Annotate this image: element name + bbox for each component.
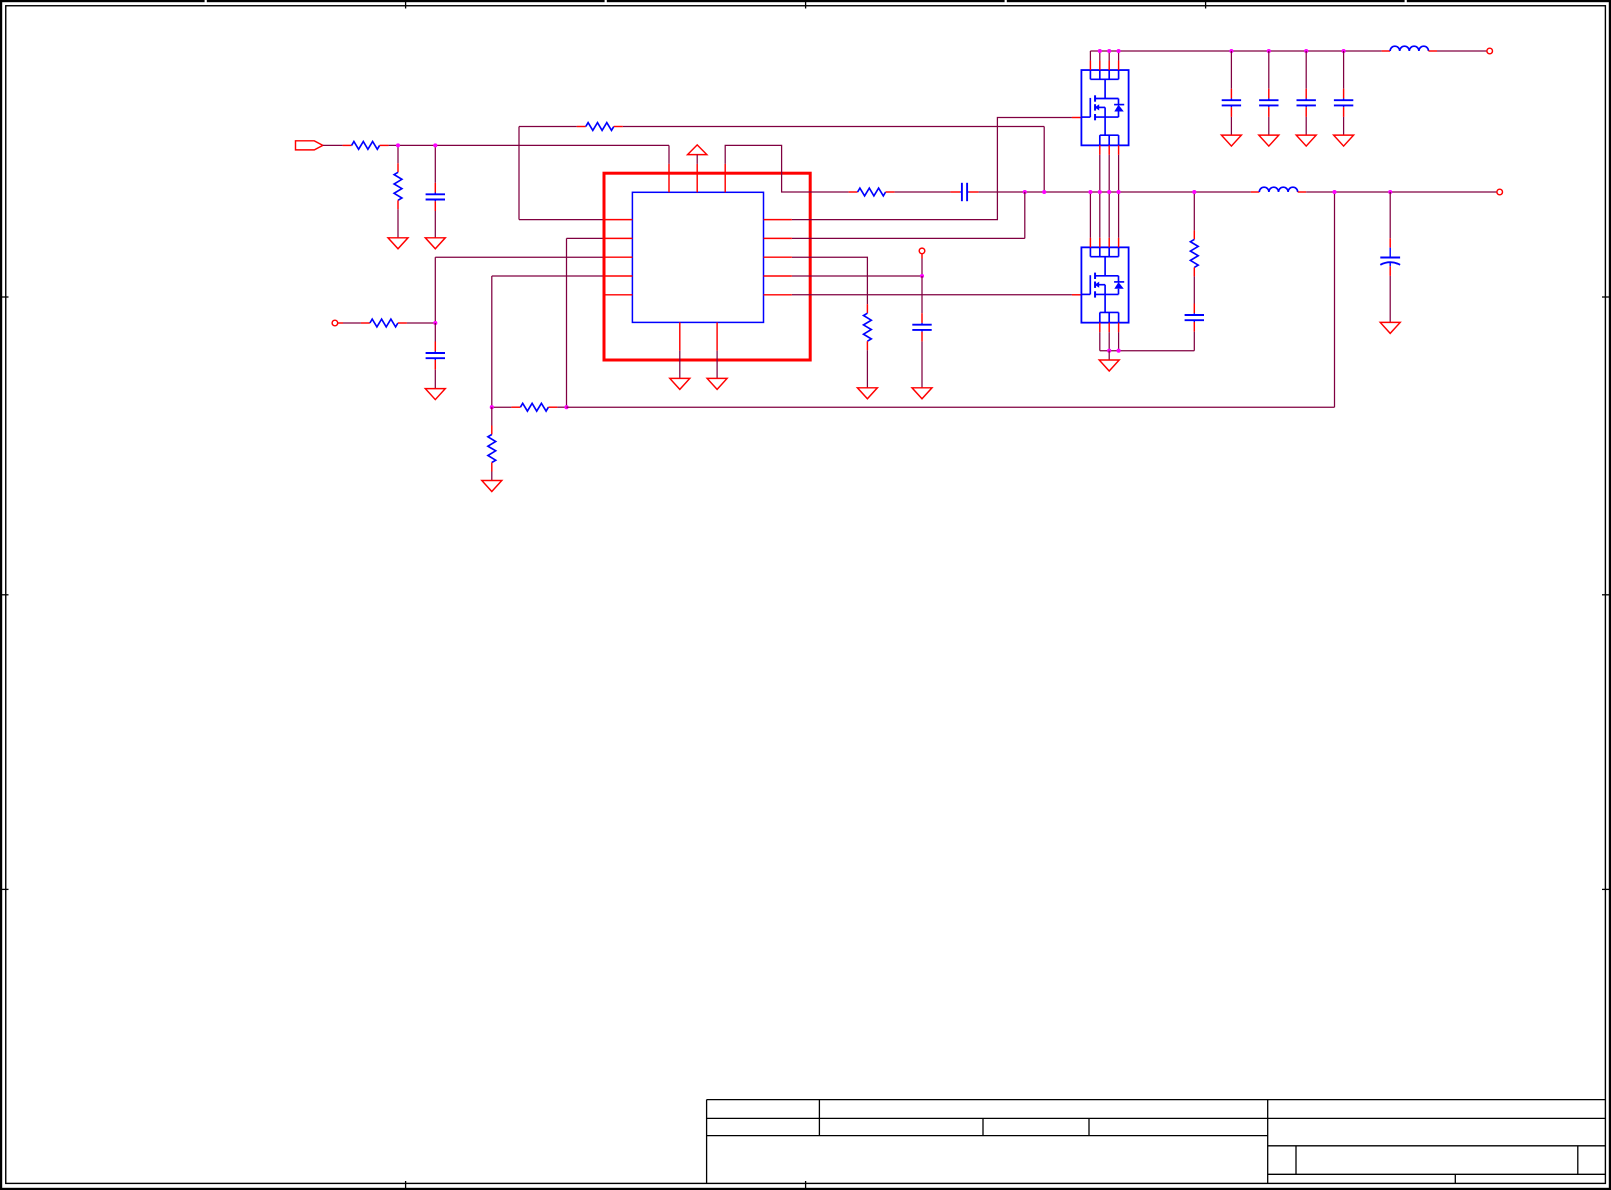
ground GND9 (1221, 135, 1241, 146)
junction (1388, 190, 1392, 194)
ground GND1 (388, 238, 408, 249)
wire (921, 276, 923, 313)
wire (1343, 117, 1345, 135)
ground GND4 (482, 481, 502, 492)
junction (1267, 49, 1271, 53)
wire (519, 126, 577, 128)
capacitor C1 (426, 183, 445, 211)
junction (1229, 49, 1233, 53)
capacitor C2 (426, 342, 445, 370)
junction (396, 143, 400, 147)
Q2 source pins (1100, 323, 1119, 351)
wire (1305, 51, 1307, 89)
junction (1117, 190, 1121, 194)
wire (1437, 50, 1487, 52)
junction (1098, 190, 1102, 194)
wire (1193, 192, 1195, 230)
wire (725, 145, 848, 192)
terminal VIN (1487, 48, 1493, 54)
junction (1088, 190, 1092, 194)
inductor L1 (1382, 46, 1437, 51)
wire (668, 145, 670, 164)
op-amp U1 body (632, 192, 763, 322)
junction (1042, 190, 1046, 194)
wire (679, 351, 681, 379)
wire (716, 351, 718, 379)
wire (1230, 117, 1232, 135)
transistor Q1 (1081, 70, 1128, 145)
capacitor C5 (1222, 89, 1241, 117)
junction (564, 405, 568, 409)
ground GND13 (1099, 360, 1119, 371)
junction (433, 321, 437, 325)
pin stub (1072, 294, 1082, 296)
junction (433, 143, 437, 147)
wire (397, 145, 399, 163)
resistor R3 boot (577, 123, 623, 131)
ground GND8 (707, 378, 727, 389)
wire (792, 275, 922, 277)
wire (343, 322, 361, 324)
wire (1305, 117, 1307, 135)
ground GND5 (857, 388, 877, 399)
ground GND3 (425, 389, 445, 400)
wire (792, 257, 867, 304)
capacitor C10 (1185, 304, 1204, 332)
inductor L2 (1251, 187, 1306, 192)
wire (792, 118, 1072, 220)
transistor Q2 (1081, 247, 1128, 322)
wire (1306, 191, 1497, 193)
wire (434, 145, 436, 182)
wire (921, 259, 923, 277)
wire (1389, 192, 1391, 238)
terminal P2 (332, 320, 338, 326)
wire (1193, 276, 1195, 303)
wire (491, 407, 493, 425)
wire (1024, 192, 1026, 238)
pin stub (338, 322, 343, 324)
ground GND12 (1334, 135, 1354, 146)
wire (492, 275, 604, 277)
IC courtyard (604, 173, 810, 360)
capacitor C11 (1380, 238, 1400, 276)
ground GND10 (1259, 135, 1279, 146)
resistor R8 (864, 304, 872, 350)
capacitor C4 (912, 313, 931, 341)
junction (1304, 49, 1308, 53)
wire (1193, 332, 1195, 351)
resistor R9 (1190, 230, 1198, 276)
junction (1332, 190, 1336, 194)
resistor R4 (361, 319, 407, 327)
wire (519, 219, 604, 221)
wire (1043, 127, 1045, 193)
U1 top pins (669, 164, 725, 192)
wire (921, 341, 923, 387)
junction (920, 274, 924, 278)
terminal VOUT (1497, 189, 1503, 195)
wire (434, 211, 436, 238)
wire (895, 191, 951, 193)
Q2 drain pins (1090, 192, 1118, 247)
wire (434, 323, 436, 342)
wire (323, 144, 343, 146)
resistor R2 (394, 163, 402, 209)
junction (1023, 190, 1027, 194)
pin stub (921, 254, 923, 259)
wire (567, 406, 1335, 408)
capacitor C3 (950, 183, 978, 201)
wire (792, 294, 1072, 296)
ground GND2 (425, 238, 445, 249)
wire (518, 127, 520, 220)
junction (1107, 190, 1111, 194)
wire (1334, 192, 1336, 407)
junction (1098, 49, 1102, 53)
wire (1090, 50, 1381, 52)
wire (1230, 51, 1232, 89)
wire (491, 472, 493, 481)
input port P1 (296, 141, 323, 150)
wire (696, 155, 698, 164)
ground GND6 (912, 388, 932, 399)
wire (434, 370, 436, 389)
resistor R6 (488, 426, 496, 472)
junction (1107, 349, 1111, 353)
pin stub (1072, 117, 1082, 119)
wire (567, 237, 605, 239)
resistor R7 (849, 188, 895, 196)
ground GND11 (1296, 135, 1316, 146)
power symbol VCC (688, 145, 707, 155)
junction (1107, 49, 1111, 53)
U1 left pins (604, 220, 632, 295)
U1 right pins (764, 220, 792, 295)
wire (792, 237, 1025, 239)
wire (492, 406, 512, 408)
ground GND14 (1380, 322, 1400, 333)
wire (1108, 351, 1110, 360)
junction (1192, 190, 1196, 194)
resistor R1 (343, 142, 389, 150)
wire (434, 257, 436, 323)
wire (623, 126, 1044, 128)
wire (1389, 276, 1391, 323)
wire (866, 350, 868, 388)
wire (435, 256, 604, 258)
wire (979, 191, 1251, 193)
wire (1268, 51, 1270, 89)
ground GND7 (670, 378, 690, 389)
wire (397, 209, 399, 238)
wire (389, 144, 669, 146)
junction (1117, 349, 1121, 353)
junction (1117, 49, 1121, 53)
wire (1268, 117, 1270, 135)
terminal P3 (919, 248, 925, 254)
wire (407, 322, 435, 324)
wire (1100, 350, 1195, 352)
Q1 source pins (1100, 145, 1119, 192)
Q1 drain pins (1090, 51, 1118, 70)
junction (490, 405, 494, 409)
wire (566, 238, 568, 407)
wire (1343, 51, 1345, 89)
capacitor C8 (1334, 89, 1353, 117)
wire (491, 276, 493, 407)
U1 bottom pins (680, 322, 717, 350)
wire (557, 406, 566, 408)
junction (1342, 49, 1346, 53)
resistor R5 (511, 403, 557, 411)
capacitor C6 (1259, 89, 1278, 117)
capacitor C7 (1297, 89, 1316, 117)
